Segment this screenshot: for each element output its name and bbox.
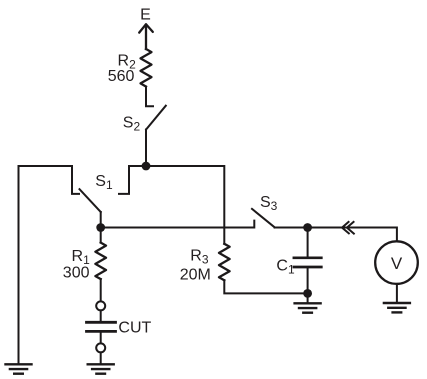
label R1 300 bbox=[63, 248, 90, 281]
ground (below C1) bbox=[295, 303, 321, 312]
svg-text:V: V bbox=[391, 254, 403, 273]
wire terminal to ground bbox=[100, 352, 102, 363]
wire left rail vertical bbox=[18, 166, 20, 364]
capacitor C1 bottom lead bbox=[307, 268, 309, 293]
switch S1 arm (closed to left contact) bbox=[80, 189, 101, 212]
svg-text:E: E bbox=[140, 7, 151, 24]
voltmeter V bbox=[375, 241, 418, 284]
switch S3 (open arm) bbox=[252, 209, 275, 227]
wire S1 arm to node B bbox=[100, 212, 102, 228]
svg-text:S1: S1 bbox=[95, 173, 113, 192]
wire voltmeter to ground bbox=[396, 284, 398, 302]
resistor R3 bbox=[219, 244, 230, 280]
node D junction dot bbox=[303, 289, 312, 298]
svg-text:S3: S3 bbox=[260, 194, 278, 213]
node B junction dot bbox=[96, 223, 105, 232]
wire S2 to node A bbox=[145, 130, 147, 167]
node C junction dot bbox=[303, 223, 312, 232]
capacitor C1 plates bbox=[294, 258, 321, 267]
ground (below CUT) bbox=[88, 364, 114, 373]
terminal circle bottom of CUT bbox=[96, 343, 105, 352]
wire CUT bottom plate to terminal bbox=[100, 333, 102, 344]
wire R1 bottom to terminal bbox=[100, 279, 102, 301]
ground (below voltmeter) bbox=[384, 303, 410, 312]
supply arrow to E bbox=[139, 24, 153, 49]
svg-text:CUT: CUT bbox=[118, 320, 151, 337]
label CUT bbox=[118, 320, 151, 337]
wire terminal to CUT top plate bbox=[100, 310, 102, 321]
svg-text:R3: R3 bbox=[190, 247, 209, 266]
CUT element plates bbox=[87, 322, 116, 331]
wire R1 top from node B bbox=[100, 228, 102, 243]
svg-text:S2: S2 bbox=[123, 115, 141, 134]
wire node A left to S1 right contact bbox=[119, 166, 146, 194]
svg-text:300: 300 bbox=[63, 265, 90, 282]
wire R2 bottom to S2 top contact bbox=[146, 87, 153, 107]
label S2 bbox=[123, 115, 141, 134]
node A junction dot bbox=[142, 162, 151, 171]
wire R3 bottom to node D bbox=[224, 280, 307, 293]
svg-text:C1: C1 bbox=[276, 258, 295, 277]
wire node A right then down to R3 bbox=[146, 166, 224, 244]
svg-text:20M: 20M bbox=[180, 267, 211, 284]
label S3 bbox=[260, 194, 278, 213]
wire node C to voltmeter bbox=[308, 228, 397, 242]
ground (left rail) bbox=[6, 364, 32, 373]
capacitor C1 top lead bbox=[307, 228, 309, 257]
label S1 bbox=[95, 173, 113, 192]
terminal circle top of CUT bbox=[96, 301, 105, 310]
resistor R1 bbox=[95, 243, 106, 280]
wire bus node B to S3 left contact with up tick bbox=[101, 221, 255, 228]
label C1 bbox=[276, 258, 295, 277]
label R3 20M bbox=[180, 247, 211, 283]
wire node D to ground bbox=[307, 293, 309, 302]
svg-text:560: 560 bbox=[108, 68, 135, 85]
probe chevrons on wire bbox=[342, 221, 355, 234]
node E label bbox=[140, 7, 151, 24]
label R2 560 bbox=[108, 52, 136, 85]
wire left rail top bbox=[19, 166, 80, 194]
resistor R2 bbox=[141, 49, 152, 87]
wire S3 right to node C bbox=[275, 227, 308, 229]
switch S2 (open arm) bbox=[146, 106, 166, 130]
